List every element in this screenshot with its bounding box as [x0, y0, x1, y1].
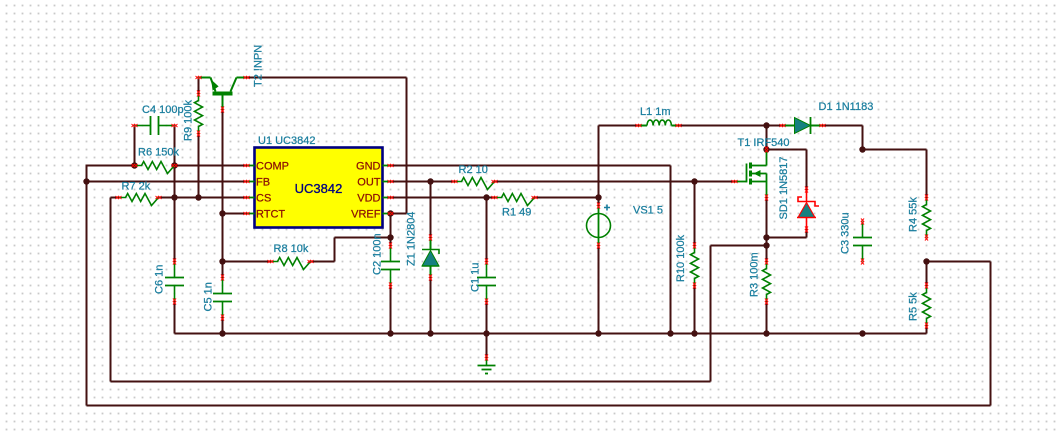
- wire T1 drain: [766, 126, 768, 150]
- wire left feedback vertical: [86, 165, 88, 406]
- wire L1 branch vertical: [598, 126, 600, 198]
- wire R8 left stub: [223, 261, 271, 263]
- svg-text:T2 !NPN: T2 !NPN: [253, 45, 265, 87]
- wire output feedback right vertical: [990, 262, 992, 406]
- junction node VDD-C1: [483, 194, 489, 200]
- svg-text:T1 IRF540: T1 IRF540: [738, 137, 790, 149]
- wire C4 left drop: [134, 126, 136, 166]
- svg-text:R4 55k: R4 55k: [908, 197, 920, 232]
- junction node drain-D1: [763, 122, 769, 128]
- wire D1 corner drop: [862, 126, 864, 150]
- svg-text:Z1 1N2804: Z1 1N2804: [406, 212, 418, 266]
- junction rail node gndrow: [667, 330, 673, 336]
- junction rail node C3: [859, 330, 865, 336]
- wire node column to C6: [174, 166, 176, 262]
- wire T2 collector down: [222, 110, 224, 214]
- wire R8 jog drop: [334, 238, 336, 262]
- junction node VREF: [387, 210, 393, 216]
- wire VS1 to rail: [598, 246, 600, 334]
- svg-text:R5 5k: R5 5k: [908, 292, 920, 321]
- resistor R9: [195, 91, 203, 137]
- junction node R6-right: [171, 162, 177, 168]
- wire VREF down to C2: [390, 214, 392, 246]
- svg-text:C1 1u: C1 1u: [470, 263, 482, 292]
- wire OUT row left: [391, 181, 455, 183]
- svg-text:RTCT: RTCT: [256, 209, 285, 221]
- junction node source-sense: [763, 242, 769, 248]
- IC U1 UC3842: [244, 148, 394, 228]
- svg-text:FB: FB: [256, 177, 270, 189]
- svg-text:C3 330u: C3 330u: [840, 212, 852, 254]
- wire CS sense to source node: [711, 245, 767, 247]
- wire D1 to corner: [823, 125, 863, 127]
- wire L1 left stub: [599, 125, 639, 127]
- svg-text:R6 150k: R6 150k: [138, 147, 179, 159]
- wire VDD to C1: [486, 198, 488, 262]
- wire VDD row: [391, 197, 495, 199]
- svg-text:VDD: VDD: [357, 193, 380, 205]
- wire SD1 bottom stub: [806, 230, 808, 238]
- svg-text:D1 1N1183: D1 1N1183: [819, 101, 874, 113]
- zener diode Z1 1N2804: [422, 235, 439, 281]
- wire top emitter run: [247, 77, 407, 79]
- wire COMP row right: [175, 165, 247, 167]
- junction rail node gnd: [483, 330, 489, 336]
- wire D1 left stub: [767, 125, 783, 127]
- wire C6 to rail: [174, 302, 176, 334]
- junction rail node R3: [763, 330, 769, 336]
- capacitor C4: [132, 116, 178, 135]
- wire CS row: [159, 197, 247, 199]
- wire OUT row right: [495, 181, 735, 183]
- wire CS sense right vertical: [710, 246, 712, 382]
- svg-text:R3 100m: R3 100m: [749, 252, 761, 297]
- junction rail node Z1: [427, 330, 433, 336]
- capacitor C3: [853, 219, 872, 265]
- svg-text:C6 1n: C6 1n: [154, 265, 166, 294]
- wire CS sense bottom run: [111, 381, 711, 383]
- wire Z1 to rail: [430, 278, 432, 334]
- svg-text:UC3842: UC3842: [295, 181, 343, 196]
- wire L1 to D1: [679, 125, 767, 127]
- junction node out-C3: [859, 146, 865, 152]
- resistor R1: [492, 194, 538, 206]
- wire RTCT row: [223, 213, 247, 215]
- wire GND drop to rail: [670, 166, 672, 334]
- wire VREF row right: [391, 213, 407, 215]
- junction node R8-VREF: [387, 234, 393, 240]
- svg-text:R8 10k: R8 10k: [274, 243, 309, 255]
- junction rail node C5: [219, 330, 225, 336]
- junction node FB-left: [83, 178, 89, 184]
- wire tap to R5: [926, 262, 928, 286]
- svg-text:R7 2k: R7 2k: [122, 181, 151, 193]
- capacitor C1: [477, 259, 496, 305]
- wire COMP row left: [87, 165, 135, 167]
- resistor R2: [452, 178, 498, 190]
- svg-text:R1 49: R1 49: [502, 207, 531, 219]
- wire SD1 top branch: [767, 149, 807, 151]
- wire T2 base to R9: [198, 78, 200, 94]
- svg-text:VS1 5: VS1 5: [633, 205, 663, 217]
- wire C5 to rail: [222, 318, 224, 334]
- resistor R6: [132, 162, 178, 174]
- wire OUT to Z1: [430, 182, 432, 238]
- wire R8 right stub: [311, 261, 335, 263]
- resistor R4: [923, 195, 931, 241]
- wire R8 jog top: [335, 237, 391, 239]
- wire R10 to rail: [694, 286, 696, 334]
- wire source to R3: [766, 246, 768, 262]
- wire C1 to rail: [486, 302, 488, 334]
- svg-text:C2 100n: C2 100n: [372, 233, 384, 275]
- wire GND row: [391, 165, 671, 167]
- wire node down to C5: [222, 214, 224, 278]
- capacitor C5: [213, 275, 232, 321]
- mosfet T1: [732, 147, 769, 201]
- svg-text:L1 1m: L1 1m: [640, 106, 671, 118]
- wire R3 to rail: [766, 302, 768, 334]
- junction rail node R10: [691, 330, 697, 336]
- svg-text:SD1 1N5817: SD1 1N5817: [778, 157, 790, 220]
- wire R4 top drop: [926, 150, 928, 198]
- svg-text:OUT: OUT: [357, 177, 381, 189]
- resistor R10: [691, 243, 699, 289]
- junction node R6-left: [131, 162, 137, 168]
- junction node CS-a: [171, 194, 177, 200]
- wire output node to R4: [863, 149, 927, 151]
- junction node VS1: [595, 194, 601, 200]
- svg-text:R9 100k: R9 100k: [183, 100, 195, 141]
- capacitor C6: [165, 259, 184, 305]
- wire divider tap run: [927, 261, 991, 263]
- svg-text:CS: CS: [256, 193, 271, 205]
- resistor R3: [763, 259, 771, 305]
- junction node drain-SD1: [763, 146, 769, 152]
- wire R1 to VS1: [535, 197, 599, 199]
- svg-text:COMP: COMP: [256, 161, 289, 173]
- wire C2 to rail: [390, 286, 392, 334]
- svg-text:R10 100k: R10 100k: [675, 234, 687, 282]
- wire SD1 top drop: [806, 150, 808, 190]
- capacitor C2: [381, 243, 400, 289]
- wire output feedback bottom run: [87, 405, 991, 407]
- junction node divider tap: [923, 258, 929, 264]
- inductor L1: [636, 120, 682, 127]
- junction rail node C2: [387, 330, 393, 336]
- wire CS sense vertical: [110, 198, 112, 382]
- wire right drop to VREF row: [406, 78, 408, 214]
- wire R9 to CS row: [198, 134, 200, 198]
- svg-text:C5 1n: C5 1n: [203, 282, 215, 311]
- svg-text:R2 10: R2 10: [459, 164, 488, 176]
- wire VS1 top stub: [598, 198, 600, 206]
- junction node OUT-Z1: [427, 178, 433, 184]
- svg-text:C4 100p: C4 100p: [142, 104, 184, 116]
- junction rail node VS1: [595, 330, 601, 336]
- wire R10 top drop: [694, 182, 696, 246]
- wire ground rail: [175, 333, 927, 335]
- resistor R8: [268, 258, 314, 270]
- schottky diode SD1 1N5817: [797, 187, 819, 233]
- svg-text:VREF: VREF: [351, 209, 381, 221]
- svg-text:U1 UC3842: U1 UC3842: [258, 135, 315, 147]
- junction node RTCT: [219, 210, 225, 216]
- wire R5 to rail corner: [926, 326, 928, 334]
- resistor R7: [116, 194, 162, 206]
- junction node OUT-R10: [691, 178, 697, 184]
- diode D1 1N1183: [780, 117, 826, 134]
- wire rail to ground symbol: [486, 334, 488, 358]
- resistor R5: [923, 283, 931, 329]
- transistor T2: [196, 76, 250, 113]
- ground: [478, 355, 496, 374]
- wire SD1 bottom branch: [767, 237, 807, 239]
- wire C4 right drop: [174, 126, 176, 166]
- wire FB row: [87, 181, 247, 183]
- wire T1 source down: [766, 198, 768, 246]
- junction node CS-b: [195, 194, 201, 200]
- junction node source-SD1: [763, 234, 769, 240]
- junction node R8-left: [219, 258, 225, 264]
- wire R7 left stub: [111, 197, 119, 199]
- voltage source VS1: [587, 203, 611, 249]
- svg-text:GND: GND: [356, 161, 381, 173]
